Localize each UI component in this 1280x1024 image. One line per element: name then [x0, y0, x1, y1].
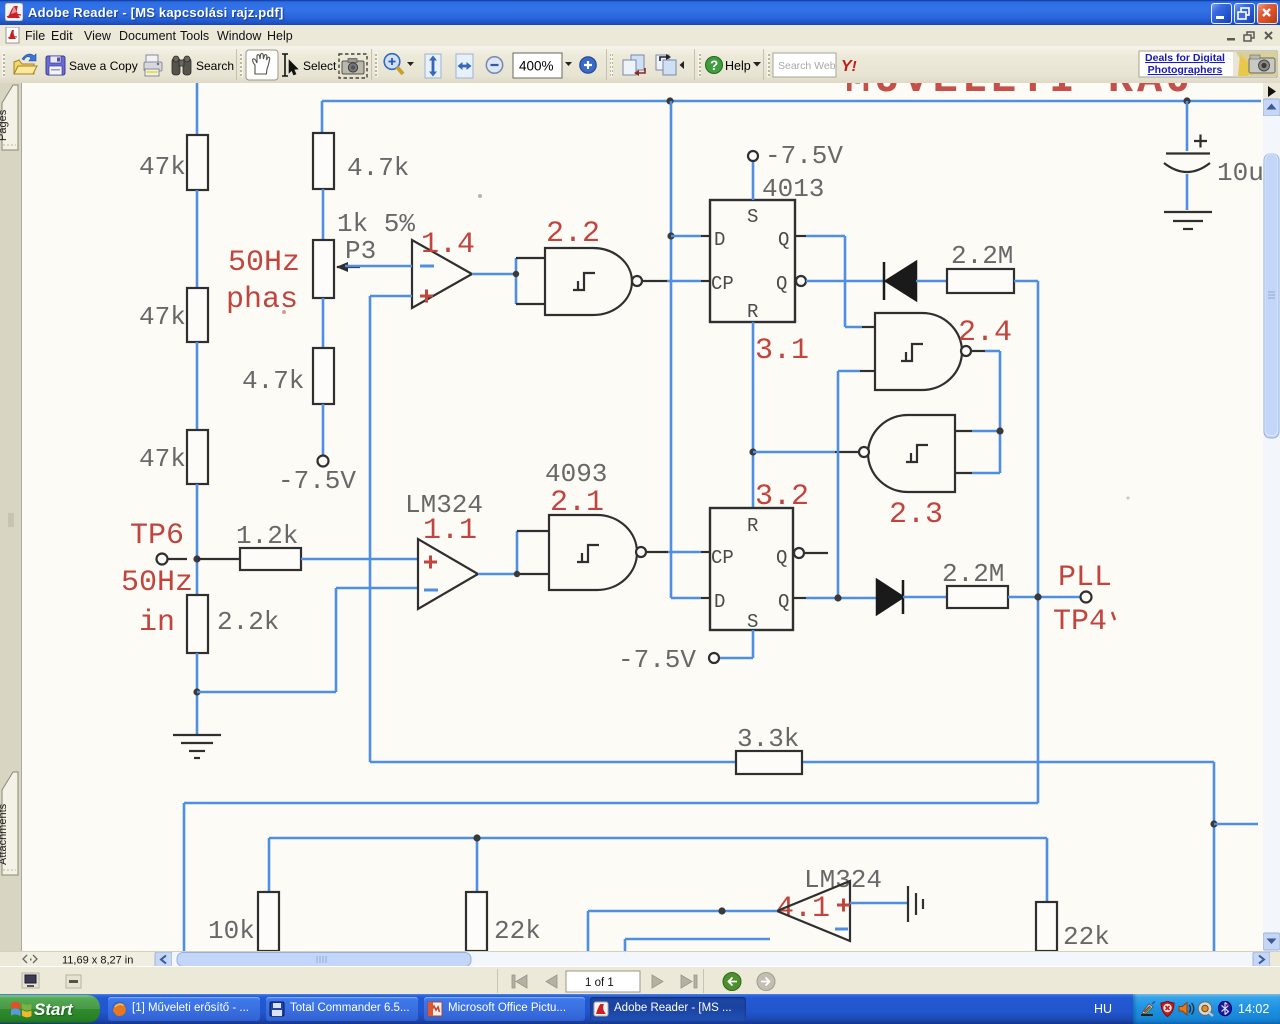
resistor 47k (lower) [139, 430, 208, 484]
fit height icon [425, 54, 441, 78]
op-amp U4.1 (mirrored) [777, 881, 850, 941]
system tray [1133, 994, 1280, 1024]
svg-text:-7.5V: -7.5V [765, 141, 843, 171]
svg-text:4.7k: 4.7k [242, 366, 304, 396]
potentiometer P3 1k 5% [313, 209, 415, 298]
400% box [513, 53, 562, 78]
node [996, 427, 1003, 434]
window buttons [1211, 3, 1232, 24]
wire: Q to gate 2.4 input [795, 235, 806, 237]
flip-flop U3.2 4013 [710, 508, 793, 633]
ground (input divider) [173, 735, 221, 758]
svg-text:-7.5V: -7.5V [278, 466, 356, 496]
svg-text:50Hz: 50Hz [228, 246, 300, 280]
wire: bottom distribution row [269, 838, 1047, 902]
svg-text:Y!: Y! [841, 58, 857, 75]
wire: right column down [1037, 281, 1040, 803]
wire [196, 484, 199, 595]
soundmax [1198, 1002, 1213, 1016]
node [834, 594, 841, 601]
svg-text:50Hz: 50Hz [121, 566, 193, 600]
diode D2 (anode left) [877, 580, 947, 614]
node [473, 834, 480, 841]
nand gate U2.1 [549, 515, 646, 590]
wire: Q2 feedback column [837, 371, 840, 598]
diode D1 (cathode left) [884, 262, 947, 300]
svg-text:Save a Copy: Save a Copy [69, 59, 138, 73]
wire: 2.3 out to R column [835, 451, 859, 453]
clock [1238, 1002, 1269, 1016]
svg-text:Q: Q [778, 591, 789, 613]
partial red title text clipped at top [845, 56, 1225, 104]
nand gate U2.3 (mirrored) [859, 415, 955, 532]
node [514, 571, 520, 577]
nand gate U2.4 [838, 313, 1012, 390]
svg-text:1.1: 1.1 [423, 514, 477, 548]
wire: top rail [322, 100, 1261, 103]
svg-text:TP4: TP4 [1053, 605, 1107, 639]
node: top rail / capacitor junction [1183, 97, 1190, 104]
wire [196, 342, 199, 430]
svg-text:?: ? [710, 58, 718, 73]
svg-text:10k: 10k [208, 916, 255, 946]
resistor 3.3k [736, 724, 802, 774]
svg-text:1.2k: 1.2k [236, 521, 298, 551]
svg-text:2.3: 2.3 [889, 498, 943, 532]
svg-text:CP: CP [711, 273, 734, 295]
svg-text:Pages: Pages [0, 109, 9, 141]
resistor 2.2M (lower) [942, 559, 1080, 608]
svg-text:3.1: 3.1 [755, 334, 809, 368]
svg-text:TP6: TP6 [130, 519, 184, 553]
ad: deals for digital photographers [1139, 51, 1277, 77]
node [513, 271, 519, 277]
terminal PLL TP4 [1053, 561, 1115, 639]
scan speck [1127, 497, 1130, 500]
svg-text:22k: 22k [494, 916, 541, 946]
op-amp U1.4 [345, 228, 475, 308]
terminal -7.5V (bottom) [618, 630, 753, 675]
svg-text:in: in [139, 606, 175, 640]
svg-text:phas: phas [226, 283, 298, 317]
binoculars [172, 56, 191, 75]
resistor 1.2k [197, 521, 418, 570]
svg-text:47k: 47k [139, 444, 186, 474]
email/pages icon 1 [623, 55, 645, 76]
search web box [773, 53, 836, 77]
terminal TP6 [121, 519, 193, 640]
svg-text:2.2k: 2.2k [217, 607, 279, 637]
svg-text:2.2M: 2.2M [942, 559, 1004, 589]
svg-text:1k 5%: 1k 5% [337, 209, 415, 239]
svg-text:P3: P3 [345, 236, 376, 266]
options arrow above scrollbar [1263, 83, 1280, 951]
svg-text:Select: Select [303, 59, 337, 73]
svg-text:Start: Start [34, 1000, 74, 1019]
node + stub right [1210, 820, 1258, 827]
nav: first [512, 975, 527, 988]
wire: long row to bottom-left [184, 803, 1038, 951]
svg-text:R: R [747, 515, 758, 537]
svg-text:10u: 10u [1217, 158, 1263, 188]
pages icon 2 [656, 54, 676, 75]
Qbar bubble + wire to diode [796, 276, 884, 286]
svg-text:R: R [747, 301, 758, 323]
svg-text:1.4: 1.4 [421, 228, 475, 262]
mdi window buttons [1224, 27, 1280, 44]
node [667, 232, 674, 239]
resistor 47k (middle) [139, 288, 208, 342]
wire: top-left drop to 4.7k [321, 101, 324, 135]
nand gate U2.2 [545, 217, 642, 315]
svg-text:47k: 47k [139, 152, 186, 182]
resistor 10k [208, 892, 279, 951]
scan speck [478, 194, 482, 198]
svg-text:PLL: PLL [1058, 561, 1112, 595]
zoom out circle [486, 57, 502, 73]
wire: Q2 out to diode [793, 597, 806, 599]
printer [144, 55, 162, 76]
svg-text:CP: CP [711, 547, 734, 569]
svg-text:11,69 x 8,27 in: 11,69 x 8,27 in [62, 955, 133, 967]
hand tool button (selected) [246, 50, 278, 80]
node: ground junction [193, 688, 200, 695]
svg-text:D: D [714, 591, 725, 613]
node: TP6 junction [193, 555, 200, 562]
svg-text:400%: 400% [519, 59, 554, 74]
resistor 2.2M (upper) [947, 241, 1038, 293]
wire [196, 190, 199, 288]
svg-text:S: S [747, 611, 758, 633]
wire: vertical bus column [671, 101, 701, 598]
svg-text:22k: 22k [1063, 922, 1110, 951]
language indicator [1094, 1002, 1112, 1016]
task buttons [108, 997, 260, 1021]
svg-text:47k: 47k [139, 302, 186, 332]
svg-text:2.2: 2.2 [546, 217, 600, 251]
tray icon: tablet [1141, 1002, 1155, 1017]
wire: 3.3k feedback row [370, 762, 1214, 951]
svg-text:4013: 4013 [762, 174, 824, 204]
capacitor C 10u [1164, 101, 1264, 210]
wire: to op-amp inverting input [197, 588, 418, 692]
node [718, 907, 725, 914]
node [749, 448, 756, 455]
svg-text:S: S [747, 206, 758, 228]
speaker [1179, 1003, 1194, 1016]
svg-text:Attachments: Attachments [0, 803, 9, 865]
svg-text:Deals for Digital: Deals for Digital [1145, 52, 1225, 64]
svg-text:3.3k: 3.3k [737, 724, 799, 754]
windows flag [11, 1002, 31, 1018]
wire: 2.2 out to CP [642, 280, 667, 282]
wire: 1.1 out to gate 2.1 [478, 531, 517, 574]
wire: 2.1 out to CP2 [646, 551, 668, 553]
op-amp U1.1 [418, 539, 478, 609]
history buttons [723, 973, 741, 991]
wire: op-amp 1.4 output to gate 2.2 [472, 258, 516, 304]
svg-text:4093: 4093 [545, 459, 607, 489]
svg-text:1 of 1: 1 of 1 [585, 977, 614, 989]
svg-text:2.4: 2.4 [958, 316, 1012, 350]
start button [0, 994, 103, 1024]
fit width icon [456, 54, 473, 78]
svg-text:Q: Q [776, 273, 787, 295]
zoom magnifier with + [384, 54, 403, 74]
node: top rail / column junction [666, 97, 673, 104]
svg-text:LM324: LM324 [804, 865, 882, 895]
svg-text:-7.5V: -7.5V [618, 645, 696, 675]
resistor 4.7k (upper) [313, 133, 409, 189]
zoom in circle [580, 57, 596, 73]
terminal -7.5V (top) [748, 141, 843, 200]
resistor 22k (left) [466, 892, 541, 951]
node [1034, 593, 1041, 600]
floppy: save a copy [46, 56, 65, 75]
resistor 2.2k [187, 595, 279, 653]
wire [196, 653, 199, 735]
svg-text:4.7k: 4.7k [347, 153, 409, 183]
svg-text:Help: Help [725, 59, 751, 73]
bluetooth [1219, 1001, 1232, 1016]
wire + terminal -7.5V [278, 404, 356, 496]
wire: D input (top 4013) [671, 235, 701, 238]
svg-text:D: D [714, 229, 725, 251]
svg-text:Q: Q [776, 547, 787, 569]
svg-text:Search: Search [196, 59, 234, 73]
wire: long feedback column [369, 296, 372, 762]
svg-text:2.2M: 2.2M [951, 241, 1013, 271]
red shield [1161, 1001, 1174, 1017]
flip-flop U3.1 4013 [710, 174, 824, 323]
help [706, 57, 723, 74]
svg-text:Photographers: Photographers [1148, 64, 1223, 76]
svg-text:Search Web: Search Web [778, 60, 836, 72]
open folder icon [14, 54, 37, 74]
wire [322, 298, 325, 348]
resistor 4.7k (lower) [242, 348, 334, 404]
pdf doc icon [5, 27, 21, 44]
ground (op-amp 4.1) [850, 886, 923, 922]
snapshot camera [339, 54, 367, 78]
wire: 4.1 input rows [588, 911, 777, 951]
svg-text:Q: Q [778, 229, 789, 251]
scan speck [282, 310, 286, 314]
resistor 22k (right) [1036, 902, 1110, 952]
wire: R to R [752, 322, 755, 508]
select tool: I-beam + arrow [282, 54, 298, 76]
wire: 2.4 out to 2.3 inputs [971, 350, 985, 352]
Qbar bubble + stub [794, 548, 828, 558]
ground (capacitor) [1164, 212, 1212, 229]
Adobe Reader app icon [5, 3, 23, 21]
wire [322, 189, 325, 240]
resistor 47k (top) [139, 83, 208, 190]
